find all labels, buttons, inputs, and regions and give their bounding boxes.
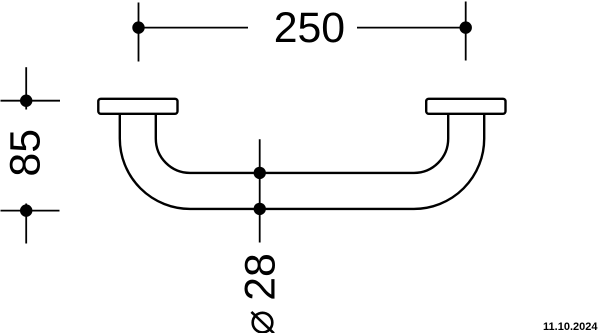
- svg-text:11.10.2024: 11.10.2024: [543, 321, 598, 333]
- svg-text:85: 85: [1, 129, 49, 177]
- svg-text:250: 250: [274, 4, 345, 52]
- svg-text:28: 28: [236, 253, 284, 301]
